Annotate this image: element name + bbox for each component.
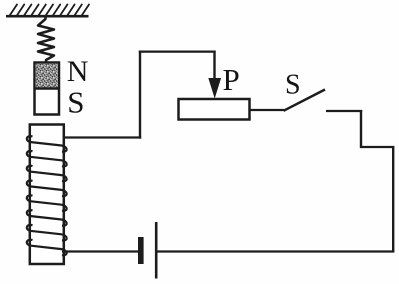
battery negative plate (short thick) [138, 237, 144, 264]
wire: coil top to left riser [64, 136, 142, 138]
rheostat wiper arrowhead [209, 79, 220, 97]
svg-text:P: P [223, 62, 240, 97]
ceiling line [6, 15, 89, 18]
wire: rheostat to switch pivot [250, 109, 284, 111]
wire: left riser up [139, 51, 141, 139]
spring [38, 17, 54, 63]
wire: battery negative to coil bottom [62, 250, 138, 252]
battery positive plate (long) [155, 222, 158, 279]
magnet body [35, 63, 60, 115]
wire: top horizontal run [139, 50, 216, 52]
svg-text:S: S [67, 84, 84, 119]
ceiling hatching [10, 5, 89, 16]
wire: drop to rheostat arrow shaft [213, 51, 215, 81]
magnet N pole (stippled) [36, 64, 58, 89]
coil turn 6 [27, 210, 67, 226]
wire: switch fixed contact to right [326, 110, 362, 112]
svg-text:S: S [285, 70, 301, 101]
coil turn 2 [27, 151, 67, 167]
coil turn 8 [27, 240, 67, 256]
coil turn 4 [27, 180, 67, 196]
coil core rectangle [30, 125, 64, 265]
svg-text:N: N [67, 55, 89, 88]
wire: bottom run to battery positive [157, 250, 394, 252]
wire: right step across [360, 146, 394, 148]
magnet pole divider [35, 87, 60, 90]
coil turn 5 [27, 195, 67, 211]
coil turn 1 [27, 136, 67, 152]
coil turn 3 [27, 166, 67, 182]
rheostat R (slide resistor) [179, 99, 250, 120]
wire: right step down [360, 110, 362, 148]
switch S blade (open) [284, 90, 326, 111]
coil turn 7 [27, 225, 67, 241]
wire: right edge down [392, 146, 394, 253]
